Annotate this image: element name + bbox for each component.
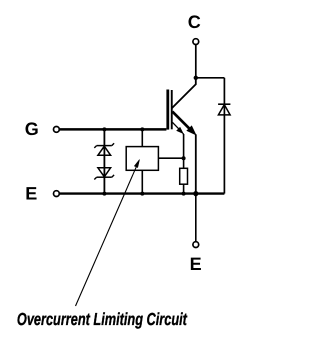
svg-text:E: E [25, 183, 37, 203]
svg-text:G: G [25, 119, 39, 139]
svg-text:E: E [190, 254, 202, 274]
svg-text:Overcurrent Limiting Circuit: Overcurrent Limiting Circuit [17, 309, 188, 329]
svg-text:C: C [188, 12, 201, 32]
